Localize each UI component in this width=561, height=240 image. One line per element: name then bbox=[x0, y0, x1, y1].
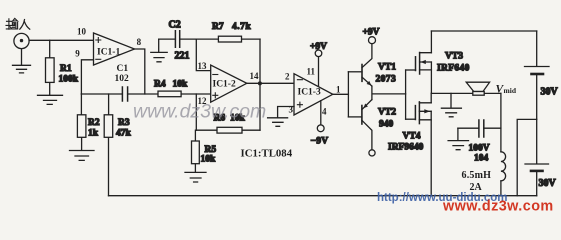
ground (R1) bbox=[38, 95, 63, 104]
svg-text:R3: R3 bbox=[118, 118, 130, 128]
speaker bbox=[466, 82, 489, 95]
resistor R5 10k bbox=[192, 130, 217, 172]
wire pin 3 stub bbox=[278, 107, 294, 118]
svg-text:2: 2 bbox=[285, 71, 290, 81]
battery 30V (bottom) bbox=[525, 119, 557, 195]
svg-text:2073: 2073 bbox=[376, 75, 397, 85]
label Vmid bbox=[496, 84, 517, 96]
wire bottom rail bbox=[109, 195, 537, 197]
inductor 6.5mH 2A bbox=[462, 93, 506, 195]
svg-text:1k: 1k bbox=[88, 129, 99, 139]
svg-text:10: 10 bbox=[77, 27, 87, 37]
svg-text:6.5mH: 6.5mH bbox=[462, 170, 492, 181]
op-amp IC1-1 bbox=[94, 33, 135, 65]
resistor R1 100k bbox=[46, 40, 79, 95]
input terminal 输入 bbox=[6, 18, 30, 48]
wire emitters to gate line bbox=[372, 86, 406, 100]
battery 30V (top) bbox=[525, 31, 559, 119]
svg-text:C1: C1 bbox=[117, 64, 129, 74]
svg-text:30V: 30V bbox=[541, 87, 559, 98]
svg-text:14: 14 bbox=[250, 71, 260, 81]
svg-text:100k: 100k bbox=[59, 75, 79, 85]
wire output node bbox=[431, 92, 501, 94]
svg-text:VT1: VT1 bbox=[378, 63, 396, 73]
svg-text:30V: 30V bbox=[539, 178, 557, 189]
wire C2/R7 node to pin 13 bbox=[196, 39, 210, 71]
svg-text:10k: 10k bbox=[173, 80, 189, 90]
svg-text:IC1-3: IC1-3 bbox=[298, 87, 321, 97]
op-amp IC1-2 bbox=[211, 65, 247, 102]
svg-text:IRF640: IRF640 bbox=[437, 64, 470, 74]
svg-text:IC1-2: IC1-2 bbox=[213, 80, 236, 90]
svg-text:100V: 100V bbox=[469, 144, 490, 154]
resistor R3 47k bbox=[104, 94, 131, 196]
svg-text:IRF9640: IRF9640 bbox=[388, 143, 424, 153]
svg-text:IC1:TL084: IC1:TL084 bbox=[241, 148, 293, 160]
resistor R4 10k bbox=[154, 80, 188, 97]
transistor VT2 940 bbox=[348, 100, 396, 150]
wire IC1-3 output bbox=[333, 93, 349, 95]
wire IC1-2 output to IC1-3 bbox=[247, 82, 294, 84]
wire pin 9 node bbox=[81, 60, 93, 94]
wire pin12 node down bbox=[195, 94, 197, 130]
svg-text:+9V: +9V bbox=[310, 42, 327, 52]
svg-text:R5: R5 bbox=[205, 145, 217, 155]
svg-text:R7: R7 bbox=[212, 22, 224, 32]
ground (pin 3) bbox=[268, 118, 288, 127]
svg-text:R4: R4 bbox=[154, 80, 166, 90]
capacitor C1 102 bbox=[115, 64, 130, 101]
MOSFET VT4 IRF9640 bbox=[388, 93, 431, 195]
wire input to IC1-1 pin10 bbox=[29, 39, 93, 41]
svg-text:C2: C2 bbox=[169, 20, 181, 31]
ground (input) bbox=[13, 49, 31, 73]
svg-text:4.7k: 4.7k bbox=[232, 22, 251, 32]
ground (R2) bbox=[70, 151, 95, 161]
capacitor C2 221 bbox=[159, 20, 197, 62]
svg-text:−9V: −9V bbox=[311, 136, 329, 146]
svg-text:VT4: VT4 bbox=[403, 132, 421, 142]
wire top rail bbox=[431, 30, 536, 32]
transistor VT1 2073 bbox=[348, 44, 396, 86]
resistor R2 1k bbox=[77, 94, 99, 150]
svg-text:+9V: +9V bbox=[363, 28, 380, 38]
svg-text:4: 4 bbox=[322, 107, 327, 117]
svg-text:940: 940 bbox=[379, 120, 394, 130]
svg-text:VT2: VT2 bbox=[378, 108, 396, 118]
resistor R6 10k bbox=[196, 114, 260, 134]
capacitor 104 100V bbox=[458, 120, 501, 164]
op-amp IC1-3 bbox=[294, 74, 333, 115]
svg-text:8: 8 bbox=[137, 37, 142, 47]
svg-text:10k: 10k bbox=[201, 155, 217, 165]
feedback vertical wire bbox=[259, 39, 261, 130]
svg-text:104: 104 bbox=[474, 154, 489, 164]
MOSFET VT3 IRF640 bbox=[406, 31, 470, 93]
svg-text:VT3: VT3 bbox=[445, 52, 463, 62]
resistor R7 4.7k bbox=[196, 22, 260, 42]
wire main node y94 bbox=[81, 93, 210, 95]
svg-text:IC1-1: IC1-1 bbox=[97, 47, 120, 57]
+9V supply (VT1) bbox=[363, 28, 380, 44]
svg-text:13: 13 bbox=[198, 61, 208, 71]
svg-text:www.dz3w.com: www.dz3w.com bbox=[442, 199, 554, 215]
svg-text:102: 102 bbox=[115, 74, 130, 84]
ground (output node) bbox=[441, 93, 461, 116]
+9V supply (IC1-3 pin11) bbox=[310, 42, 327, 86]
svg-text:www.dz3w.com: www.dz3w.com bbox=[133, 101, 266, 123]
ground (R5) bbox=[185, 172, 206, 182]
svg-text:11: 11 bbox=[307, 67, 316, 77]
svg-text:221: 221 bbox=[175, 51, 190, 62]
terminal (VT2 collector) bbox=[369, 150, 375, 156]
svg-text:R2: R2 bbox=[88, 118, 100, 128]
svg-text:R1: R1 bbox=[60, 64, 72, 74]
svg-text:mid: mid bbox=[504, 86, 517, 95]
wire base line VT1/VT2 bbox=[347, 72, 349, 117]
-9V supply (IC1-3 pin4) bbox=[311, 101, 329, 147]
wire IC1-1 output pin 8 bbox=[135, 49, 145, 94]
wire Vmid tap bbox=[517, 119, 537, 195]
svg-text:1: 1 bbox=[336, 85, 341, 95]
svg-text:47k: 47k bbox=[116, 129, 132, 139]
svg-text:9: 9 bbox=[75, 49, 80, 59]
ground (zobel cap) bbox=[448, 128, 468, 150]
node junction dot bbox=[258, 81, 262, 85]
wire gate line bbox=[405, 70, 407, 119]
ground (C2) bbox=[151, 39, 167, 62]
